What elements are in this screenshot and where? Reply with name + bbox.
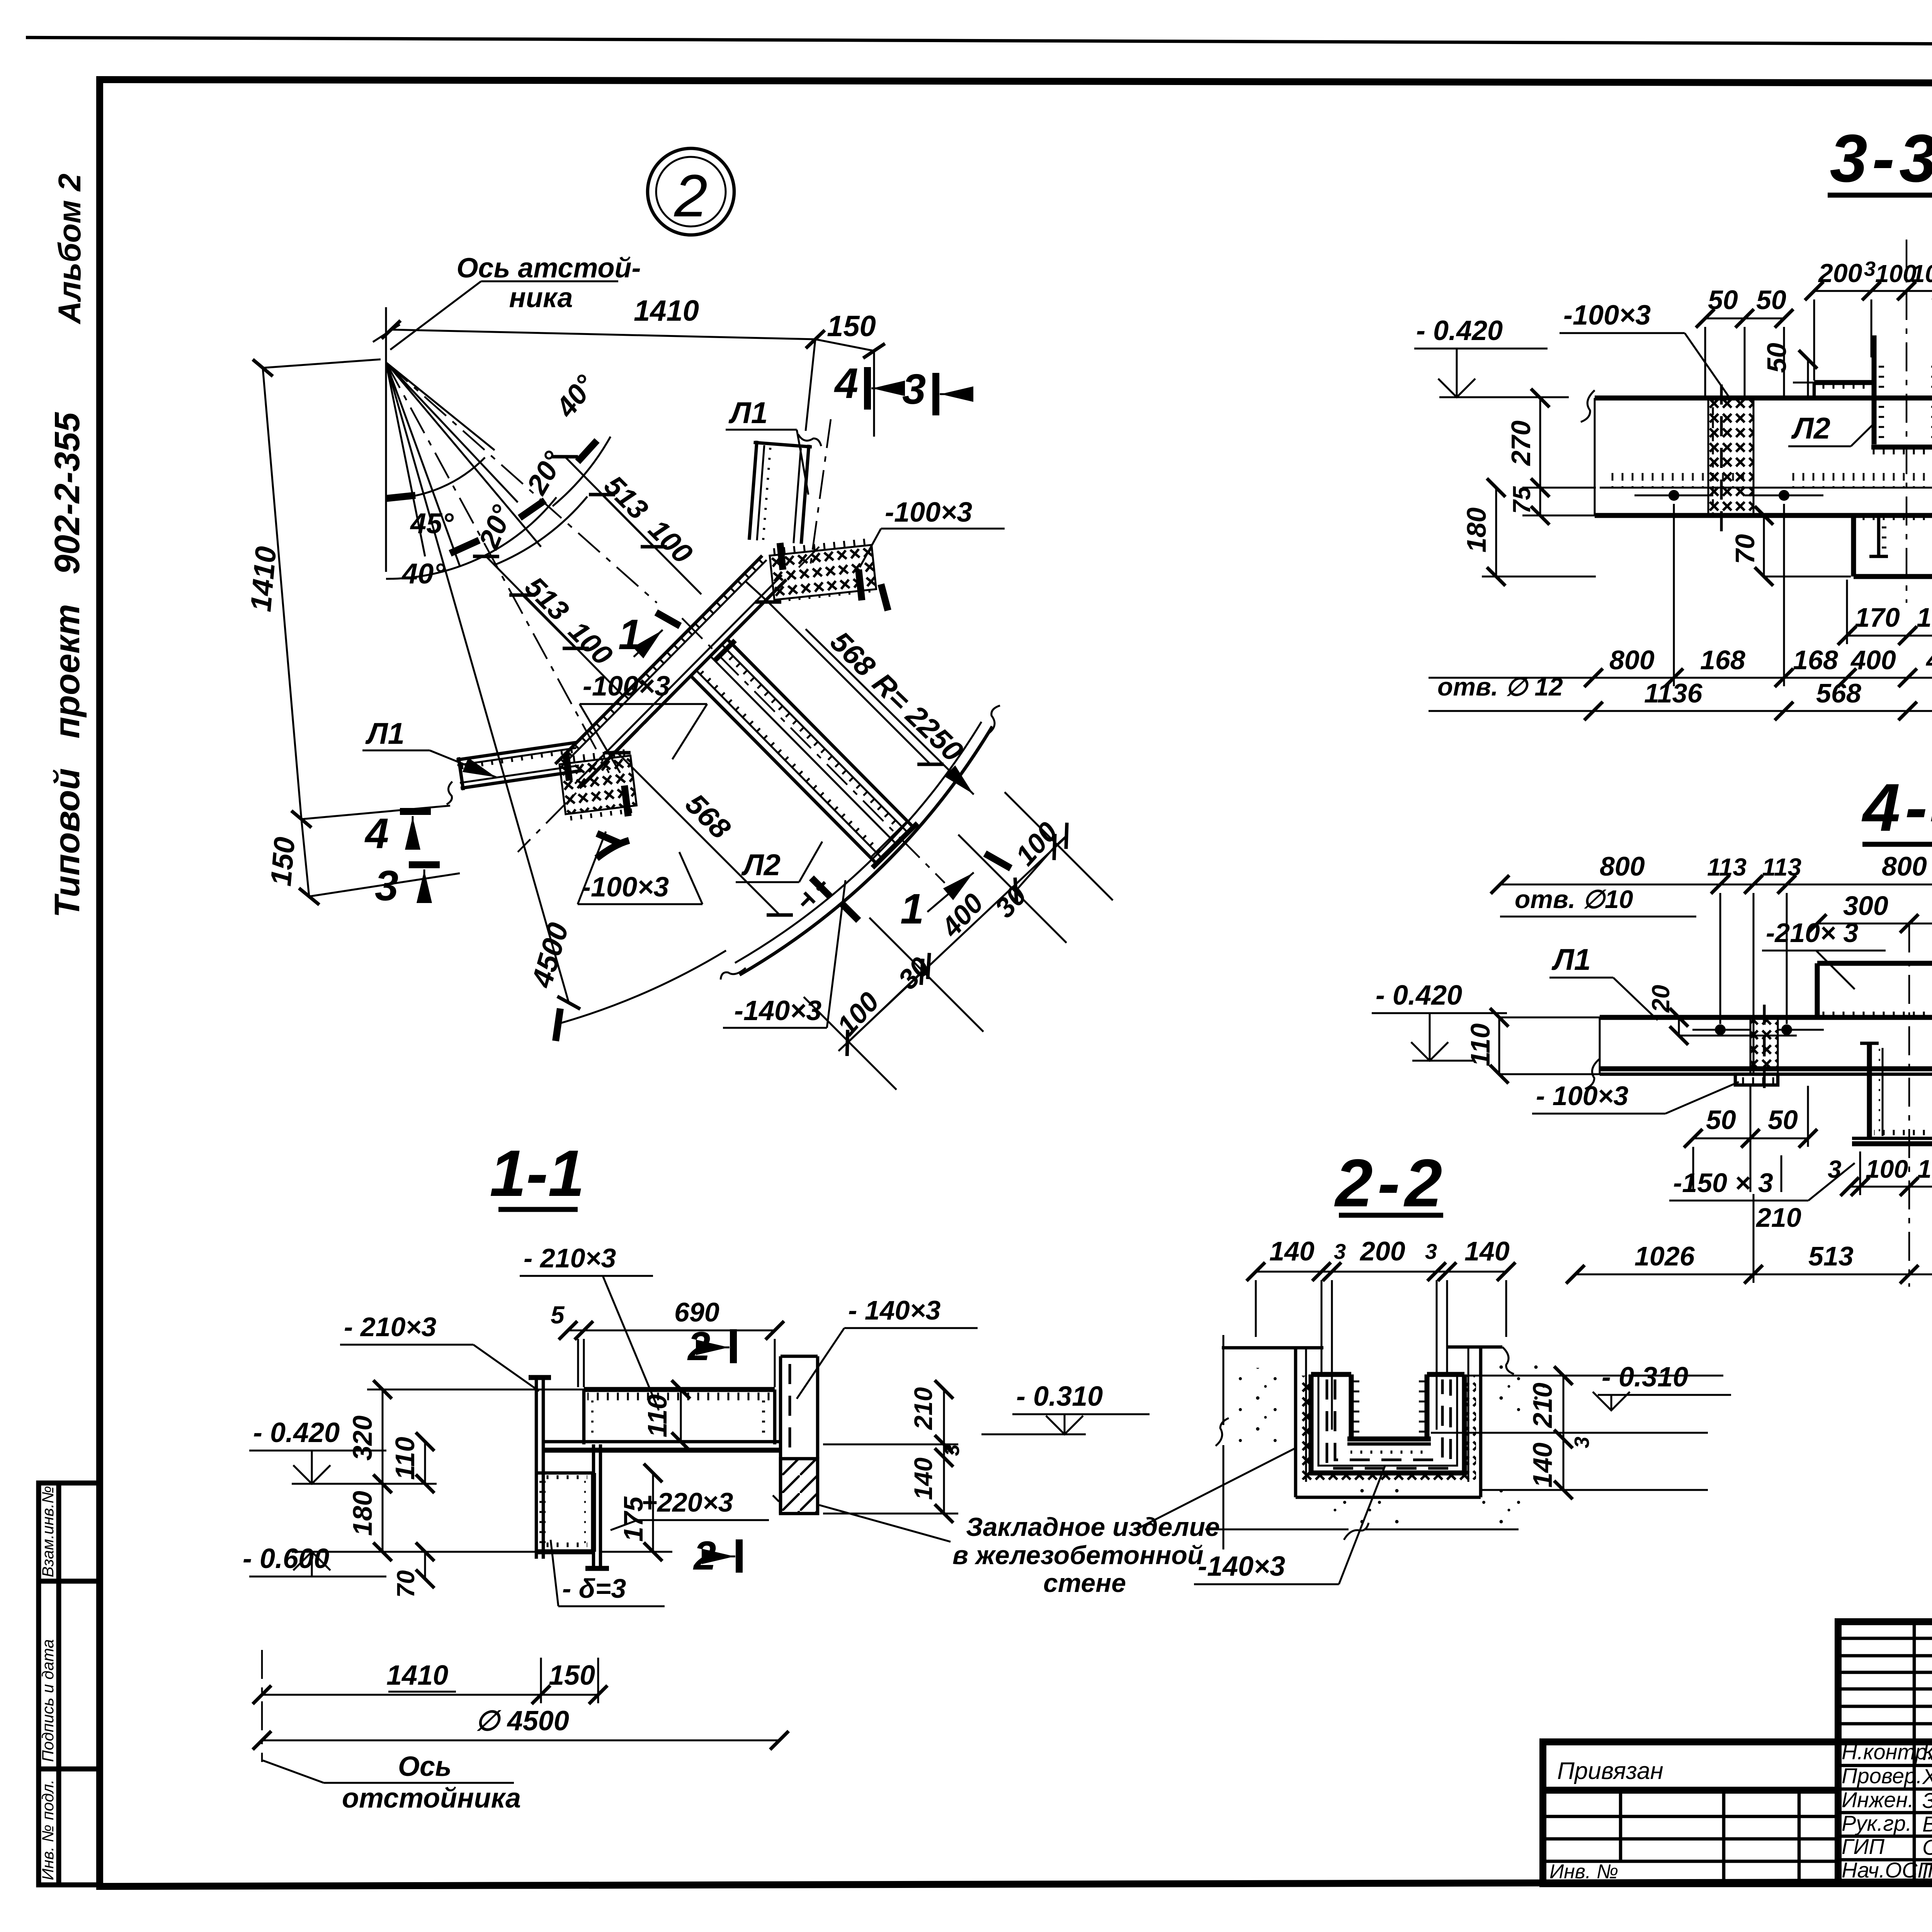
svg-text:100: 100 — [1875, 260, 1917, 287]
svg-text:210: 210 — [909, 1387, 937, 1430]
svg-text:168: 168 — [1700, 645, 1745, 675]
4-4 label отв. ф10 — [1500, 885, 1696, 917]
1-1 level -0.310 — [981, 1381, 1150, 1434]
svg-text:Типовой проект 902-2-355: Типовой проект 902-2-355 — [48, 412, 87, 918]
svg-text:4: 4 — [834, 360, 858, 407]
svg-text:40°: 40° — [401, 558, 445, 590]
svg-text:Киселев: Киселев — [1922, 1740, 1932, 1765]
svg-text:Подпись и дата: Подпись и дата — [39, 1639, 57, 1762]
1-1 label -delta=3 — [551, 1540, 665, 1606]
svg-text:-140×3: -140×3 — [734, 995, 821, 1026]
svg-text:Л2: Л2 — [1791, 411, 1830, 445]
svg-text:690: 690 — [674, 1297, 719, 1327]
svg-text:113: 113 — [1762, 853, 1801, 881]
svg-text:170: 170 — [1855, 602, 1900, 633]
svg-text:150: 150 — [827, 310, 876, 343]
2-2 right dim 210/140/3 — [1481, 1376, 1708, 1490]
4-4 left dim 110 — [1465, 1017, 1602, 1074]
svg-text:4-4: 4-4 — [1862, 770, 1932, 845]
attachment table (Привязан) — [1543, 1742, 1838, 1884]
svg-text:100: 100 — [1917, 1155, 1932, 1183]
svg-text:Привязан: Привязан — [1557, 1758, 1663, 1784]
svg-text:3: 3 — [1425, 1239, 1437, 1264]
svg-text:Взам.инв.№: Взам.инв.№ — [39, 1486, 57, 1577]
1-1 left dim 320 — [347, 1389, 584, 1484]
svg-text:-210× 3: -210× 3 — [1766, 918, 1858, 948]
svg-text:50: 50 — [1768, 1105, 1798, 1135]
1-1 label -140x3 — [797, 1295, 978, 1399]
svg-text:150: 150 — [549, 1660, 595, 1691]
svg-text:800: 800 — [1882, 851, 1927, 881]
svg-text:Закладное изделие: Закладное изделие — [966, 1512, 1220, 1542]
svg-text:Инжен.: Инжен. — [1842, 1787, 1914, 1812]
svg-text:Н.контр.: Н.контр. — [1842, 1740, 1932, 1764]
left outlet channel (plan) — [440, 740, 583, 804]
1-1 dim 175 — [600, 1473, 672, 1552]
section flags 4 and 3 top (plan) — [834, 360, 968, 415]
4-4 bottom dim row 1026/513/513/1026 — [1575, 1086, 1932, 1283]
1-1 dim 5 and 690 — [551, 1297, 775, 1387]
svg-text:4: 4 — [364, 810, 389, 857]
svg-text:Л2: Л2 — [741, 848, 781, 882]
svg-text:3-3: 3-3 — [1830, 121, 1932, 196]
4-4 bolts — [1692, 1024, 1932, 1035]
label -100x3 top right (plan) — [860, 497, 1005, 567]
dim 1410 top — [391, 294, 876, 437]
svg-text:Инв. № подл.: Инв. № подл. — [39, 1779, 57, 1880]
tank wall arc outer — [740, 726, 992, 975]
1-1 wall — [773, 1356, 818, 1514]
svg-text:5: 5 — [551, 1301, 565, 1329]
svg-text:- 0.420: - 0.420 — [1416, 315, 1503, 346]
svg-text:Ханин: Ханин — [1922, 1764, 1932, 1789]
svg-text:140: 140 — [1269, 1236, 1315, 1266]
svg-text:+220×3: +220×3 — [641, 1487, 733, 1517]
1-1 label -210x3 upper — [520, 1243, 659, 1410]
label -100x3 bottom (plan) — [578, 832, 702, 904]
svg-text:Альбом 2: Альбом 2 — [52, 173, 87, 325]
title 1-1 — [490, 1137, 585, 1210]
svg-text:100: 100 — [1911, 260, 1932, 287]
dim 1410 left — [244, 359, 460, 896]
svg-text:- 0.310: - 0.310 — [1602, 1362, 1688, 1393]
svg-text:400: 400 — [1850, 645, 1896, 675]
svg-text:140: 140 — [909, 1458, 937, 1500]
svg-text:3: 3 — [1864, 257, 1876, 281]
4-4 label -210x3 top — [1762, 918, 1886, 989]
svg-text:140: 140 — [1527, 1442, 1558, 1488]
4-4 label Л1 — [1549, 942, 1658, 1020]
svg-text:140: 140 — [1464, 1236, 1510, 1266]
svg-text:180: 180 — [347, 1491, 378, 1536]
svg-text:- 0.420: - 0.420 — [253, 1417, 340, 1448]
2-2 top dim row 140/3/200/3/140 — [1256, 1236, 1510, 1430]
svg-text:-100×3: -100×3 — [1563, 300, 1651, 331]
4-4 splice left — [1750, 1005, 1778, 1090]
junction plate lower (plan) — [558, 746, 638, 824]
svg-text:Ось: Ось — [398, 1751, 452, 1782]
1-1 lower channel — [536, 1473, 594, 1552]
svg-text:210: 210 — [1527, 1383, 1558, 1429]
svg-text:50: 50 — [1762, 343, 1792, 373]
angle arcs — [386, 457, 485, 498]
svg-text:3: 3 — [940, 1444, 964, 1456]
1-1 left dim 110 — [390, 1437, 425, 1484]
3-3 dim 50 vertical small — [1762, 343, 1816, 398]
3-3 bolts — [1634, 490, 1932, 501]
svg-text:3: 3 — [375, 862, 398, 910]
title 2-2 — [1334, 1146, 1447, 1221]
svg-text:- 0.600: - 0.600 — [243, 1543, 329, 1574]
3-3 top dim row 200 3 100 100 3 200 — [1814, 257, 1932, 381]
svg-text:- δ=3: - δ=3 — [562, 1573, 626, 1604]
1-1 axis label — [263, 1751, 521, 1814]
svg-text:Инв. №: Инв. № — [1549, 1861, 1618, 1883]
4-4 dim 50 50 — [1693, 1086, 1808, 1192]
3-3 dims 50 50 left — [1705, 285, 1786, 396]
svg-text:1410: 1410 — [634, 294, 699, 327]
thin upper rows — [1838, 1637, 1932, 1640]
label: Ось отстойника (plan) — [390, 253, 641, 350]
svg-text:- 0.420: - 0.420 — [1376, 980, 1462, 1011]
svg-text:1: 1 — [900, 885, 924, 933]
3-3 dim 170 170 — [1847, 580, 1932, 644]
left sidebar boxes — [39, 1483, 99, 1885]
wall arc break marks — [988, 706, 1000, 734]
embedded item note — [819, 1448, 1295, 1598]
3-3 channel Л2 hat — [1814, 335, 1932, 456]
1-1 label -210x3 left — [340, 1312, 539, 1391]
2-2 steel liner — [1311, 1374, 1464, 1473]
svg-text:- 210×3: - 210×3 — [524, 1243, 616, 1273]
svg-text:∅ 4500: ∅ 4500 — [475, 1706, 569, 1736]
svg-text:110: 110 — [642, 1394, 672, 1437]
svg-text:320: 320 — [347, 1415, 378, 1461]
svg-text:513: 513 — [1808, 1241, 1854, 1271]
svg-text:-150 × 3: -150 × 3 — [1673, 1168, 1773, 1198]
label Л1 top (plan) — [726, 396, 808, 495]
svg-text:Л1: Л1 — [365, 716, 405, 750]
svg-text:110: 110 — [390, 1437, 420, 1480]
signature table outer — [1838, 1622, 1932, 1884]
name rows — [1838, 1764, 1932, 1767]
diagonal dim chain 513/100 lower — [486, 556, 623, 696]
4-4 level -0.420 left — [1372, 980, 1507, 1061]
dim R=2250 — [806, 629, 974, 794]
svg-text:Рук.гр.: Рук.гр. — [1842, 1811, 1912, 1835]
svg-text:Л1: Л1 — [728, 396, 768, 430]
svg-text:Ващенко: Ващенко — [1922, 1812, 1932, 1836]
label -140x3 (plan) — [723, 880, 845, 1028]
svg-text:1410: 1410 — [244, 545, 282, 613]
svg-text:- 140×3: - 140×3 — [848, 1295, 940, 1325]
3-3 dim row 1136/568/568/1136 — [1429, 672, 1932, 711]
svg-text:- 100×3: - 100×3 — [1536, 1081, 1628, 1111]
2-2 label -140x3 — [1194, 1465, 1385, 1584]
1-1 top channel — [543, 1389, 781, 1450]
svg-text:- 0.310: - 0.310 — [1016, 1381, 1103, 1412]
1-1 right dim 210/3/140 — [823, 1387, 964, 1514]
svg-text:3: 3 — [1334, 1239, 1346, 1264]
section flag 1 lower (plan) — [900, 854, 1011, 933]
1-1 left vertical plate — [529, 1378, 551, 1559]
sheet top trim line — [26, 37, 1932, 46]
svg-text:75: 75 — [1508, 486, 1536, 514]
svg-text:200: 200 — [1359, 1236, 1405, 1266]
svg-text:ГИП: ГИП — [1842, 1834, 1885, 1859]
4-4 dim 3 100 100 3 — [1828, 1151, 1932, 1195]
2-2 level -0.310 — [1431, 1362, 1731, 1433]
svg-text:1026: 1026 — [1634, 1241, 1695, 1271]
1-1 dim 70 — [392, 1552, 425, 1598]
svg-text:в железобетонной: в железобетонной — [952, 1541, 1204, 1570]
junction plate top (plan) — [769, 533, 877, 609]
4-4 dim 300 300 — [1817, 891, 1932, 923]
svg-text:1136: 1136 — [1644, 678, 1703, 708]
tank axis vertical line — [385, 307, 387, 572]
svg-text:Седых: Седых — [1922, 1835, 1932, 1859]
tank wall arc inner — [735, 722, 981, 963]
svg-text:отв. ∅10: отв. ∅10 — [1515, 885, 1633, 913]
diagonal dim chain 513/100 upper — [565, 457, 701, 594]
4-4 raised plate — [1817, 963, 1932, 1017]
3-3 level -0.420 — [1414, 315, 1569, 397]
label -100x3 middle (plan) — [580, 671, 707, 773]
1-1 right vertical plate — [585, 1444, 609, 1568]
bold arrow strokes on arcs — [386, 495, 415, 498]
svg-text:3: 3 — [902, 366, 926, 413]
svg-text:110: 110 — [1465, 1023, 1495, 1066]
svg-text:50: 50 — [1756, 285, 1786, 315]
svg-text:ника: ника — [509, 282, 573, 313]
3-3 label -100x3 left — [1560, 300, 1731, 400]
svg-text:800: 800 — [1600, 851, 1645, 881]
svg-text:113: 113 — [1707, 853, 1747, 881]
svg-text:150: 150 — [264, 836, 301, 888]
svg-text:отв. ∅ 12: отв. ∅ 12 — [1437, 672, 1563, 701]
3-3 base strip top plate — [1581, 390, 1932, 515]
svg-text:3: 3 — [1570, 1437, 1594, 1448]
svg-text:-100×3: -100×3 — [582, 872, 669, 903]
dim 568 lower — [617, 753, 780, 915]
main diagonal channel (plan) — [555, 556, 786, 788]
2-2 bottom ground line — [1205, 1335, 1519, 1549]
node mark circle 2 — [648, 148, 734, 235]
4-4 centerline — [1908, 923, 1910, 1287]
svg-text:20: 20 — [1647, 985, 1675, 1013]
title 3-3 — [1828, 121, 1932, 196]
svg-text:стене: стене — [1043, 1568, 1126, 1598]
thin arc at 4500 — [558, 951, 726, 1024]
3-3 bottom box — [1854, 515, 1932, 577]
section flags 4 and 3 bottom-left (plan) — [364, 810, 440, 910]
svg-text:1410: 1410 — [386, 1660, 448, 1691]
top inlet channel (plan) — [746, 431, 822, 545]
svg-text:Зайцев: Зайцев — [1922, 1788, 1932, 1813]
svg-text:-100×3: -100×3 — [583, 671, 670, 702]
1-1 level -0.600 — [243, 1543, 537, 1577]
svg-text:Ось атстой-: Ось атстой- — [457, 253, 641, 284]
4-4 base strip — [1585, 1017, 1932, 1089]
svg-text:400: 400 — [1925, 645, 1932, 675]
svg-text:-100×3: -100×3 — [885, 497, 972, 528]
svg-text:568: 568 — [1816, 678, 1861, 708]
louver channel Л2 (plan, wide) — [687, 636, 917, 867]
bold marks lower junction — [597, 833, 622, 844]
svg-text:Провер.: Провер. — [1842, 1764, 1922, 1788]
svg-text:170: 170 — [1917, 602, 1932, 633]
dim 568 upper — [746, 582, 930, 764]
1-1 section flag 2 upper — [687, 1324, 733, 1369]
1-1 bottom dim 1410/150 — [262, 1658, 598, 1703]
3-3 dim 70 — [1730, 515, 1851, 577]
svg-text:50: 50 — [1706, 1105, 1736, 1135]
svg-text:168: 168 — [1793, 645, 1838, 675]
svg-text:210: 210 — [1755, 1202, 1801, 1233]
svg-text:1-1: 1-1 — [490, 1137, 585, 1210]
4-4 label -150x3 / 210 — [1669, 1155, 1855, 1233]
4-4 dim 20 — [1647, 985, 1797, 1036]
fan rays from vertex — [386, 362, 657, 773]
bold mark at top junction — [881, 584, 888, 611]
3-3 splice zone left — [1708, 384, 1753, 531]
label Л1 left (plan) — [362, 716, 497, 777]
1-1 section flag 2 lower — [693, 1533, 739, 1578]
svg-text:отстойника: отстойника — [342, 1783, 521, 1814]
2-2 concrete pit — [1222, 1347, 1546, 1528]
svg-text:Пасева: Пасева — [1922, 1859, 1932, 1883]
4-4 left stub -100x3 — [1532, 1074, 1778, 1114]
svg-text:3: 3 — [1828, 1155, 1842, 1183]
title 4-4 — [1862, 770, 1932, 845]
louver end brackets (plan) — [811, 878, 830, 896]
3-3 centerline — [1906, 240, 1908, 603]
3-3 left dim stack 270/75 — [1506, 398, 1596, 515]
svg-text:180: 180 — [1461, 507, 1492, 553]
svg-text:Л1: Л1 — [1551, 942, 1591, 976]
svg-text:100: 100 — [1866, 1155, 1908, 1183]
label Л2 (plan) — [736, 842, 822, 882]
1-1 label +220x3 — [611, 1487, 769, 1530]
4-4 hanging channel — [1852, 1043, 1932, 1144]
svg-text:- 210×3: - 210×3 — [344, 1312, 436, 1342]
4-4 top dim row 800/113/113/800/113/113/800 — [1500, 851, 1932, 1074]
svg-text:200: 200 — [1818, 259, 1862, 288]
svg-text:2-2: 2-2 — [1334, 1146, 1447, 1221]
channel centerlines (plan) — [518, 547, 819, 852]
1-1 bottom dim 4500 — [262, 1650, 779, 1762]
svg-text:2: 2 — [674, 162, 707, 229]
svg-text:50: 50 — [1708, 285, 1738, 315]
3-3 dim row 800/168/168/400/400/168/168/800 — [1594, 504, 1932, 686]
svg-text:Нач.ОСП: Нач.ОСП — [1842, 1858, 1932, 1882]
svg-text:800: 800 — [1609, 645, 1655, 675]
3-3 left dim 180 — [1461, 488, 1596, 577]
svg-text:70: 70 — [392, 1570, 420, 1598]
svg-text:70: 70 — [1730, 534, 1760, 564]
1-1 level -0.420 — [249, 1417, 437, 1484]
radial dim chain 100/30/400/30/100 — [804, 792, 1113, 1090]
verticals — [1913, 1622, 1916, 1884]
1-1 left dim 180 — [347, 1484, 383, 1552]
svg-text:-140×3: -140×3 — [1198, 1551, 1285, 1582]
title block — [1838, 1622, 1932, 1885]
section flag 1 upper (plan) — [618, 611, 680, 658]
3-3 label Л2 — [1788, 411, 1873, 446]
svg-text:300: 300 — [1843, 891, 1888, 921]
dim 4500 diagonal — [386, 362, 575, 1003]
svg-text:270: 270 — [1506, 420, 1536, 466]
